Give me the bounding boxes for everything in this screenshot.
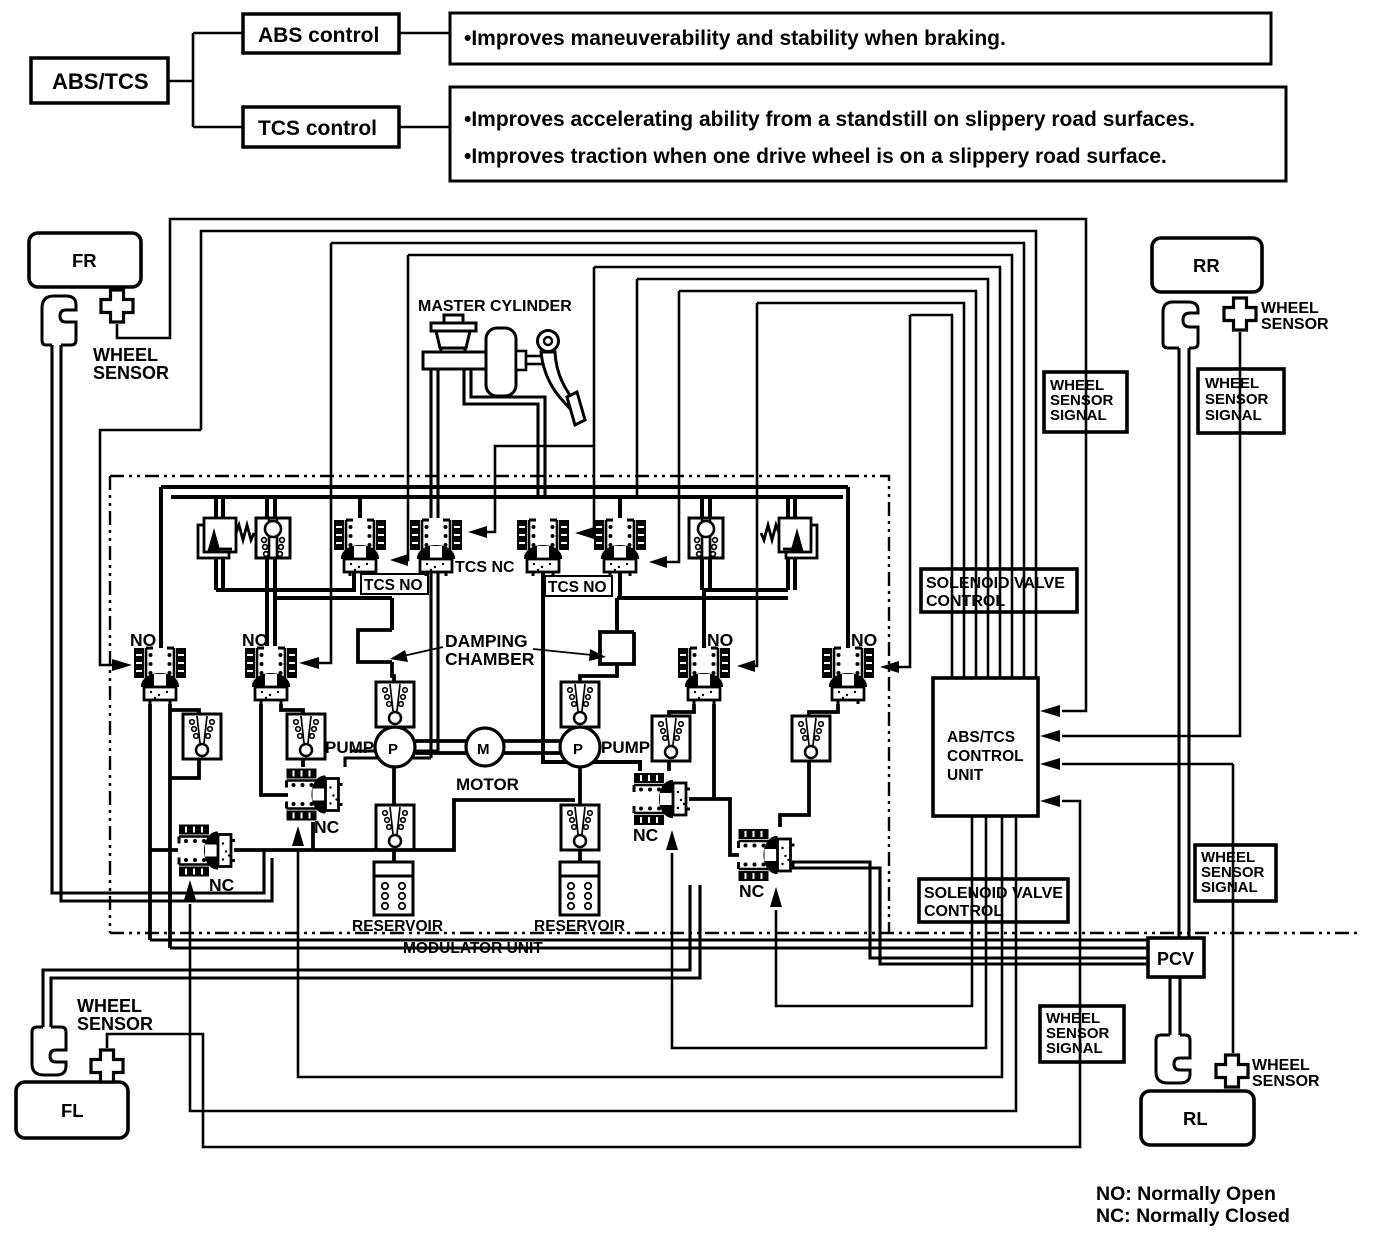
solenoid valve NO right1 bbox=[678, 648, 730, 704]
wire FL wheel sensor signal bbox=[107, 801, 1080, 1147]
svg-text:WHEEL: WHEEL bbox=[77, 996, 142, 1016]
pump P left bbox=[375, 727, 415, 767]
box FR bbox=[29, 233, 141, 287]
arrow into NO2 bbox=[299, 657, 319, 669]
wire L9 solenoid NO right2 bbox=[898, 315, 952, 678]
arrow into control unit 4 bbox=[1040, 795, 1060, 807]
svg-text:WHEEL: WHEEL bbox=[1205, 375, 1259, 392]
reservoir left bbox=[374, 862, 413, 915]
pipe master cylinder output 1 bbox=[345, 369, 438, 767]
label TCS NO right (boxed) bbox=[545, 576, 612, 596]
box TCS control bbox=[243, 107, 399, 147]
motor M bbox=[466, 728, 504, 766]
box WHEEL SENSOR SIGNAL top-left bbox=[1044, 372, 1127, 432]
pipe NC right1 to NC right2 bbox=[689, 799, 739, 855]
box SOLENOID VALVE CONTROL top bbox=[921, 569, 1077, 612]
svg-text:SENSOR: SENSOR bbox=[1205, 391, 1269, 408]
svg-text:DAMPING: DAMPING bbox=[445, 631, 528, 651]
arrow into NC mid-left bbox=[292, 826, 304, 846]
wheel sensor pickup FR (hook) bbox=[42, 296, 76, 345]
box PCV bbox=[1148, 938, 1204, 977]
wire NC right2 solenoid bbox=[776, 816, 972, 1006]
solenoid valve NC lower-left bbox=[179, 825, 235, 877]
pump P right bbox=[560, 727, 600, 767]
wire L5 solenoid TCS NC bbox=[486, 267, 1000, 678]
spring check below NO right1 bbox=[652, 716, 690, 761]
arrow into NC right2 bbox=[770, 887, 782, 907]
box TCS description bbox=[450, 87, 1286, 181]
label WHEEL SENSOR (RL) bbox=[1252, 1057, 1320, 1090]
svg-text:SOLENOID VALVE: SOLENOID VALVE bbox=[926, 575, 1065, 592]
label RESERVOIR right bbox=[534, 918, 625, 935]
svg-text:NC: NC bbox=[633, 825, 659, 845]
box WHEEL SENSOR SIGNAL top-right bbox=[1198, 369, 1284, 433]
pipe mid rail right bbox=[702, 552, 795, 648]
arrow into NC lower-left bbox=[184, 880, 196, 900]
wire L2 solenoid NO1 bbox=[100, 231, 1036, 678]
svg-text:NO: Normally Open: NO: Normally Open bbox=[1096, 1183, 1276, 1205]
svg-text:TCS NC: TCS NC bbox=[455, 559, 515, 576]
svg-text:CONTROL: CONTROL bbox=[947, 748, 1024, 765]
svg-text:SIGNAL: SIGNAL bbox=[1201, 879, 1258, 896]
label MASTER CYLINDER bbox=[418, 298, 572, 315]
damping chamber right bbox=[580, 632, 634, 684]
label NO 2 bbox=[242, 630, 268, 650]
svg-text:CHAMBER: CHAMBER bbox=[445, 649, 535, 669]
relief valve right bbox=[761, 518, 817, 558]
pipe NO1 bottom links bbox=[150, 704, 199, 948]
svg-text:NC: NC bbox=[739, 881, 765, 901]
svg-text:FR: FR bbox=[72, 250, 97, 271]
arrow into TCS NC bbox=[468, 526, 487, 538]
pipe mid rail left (relief to TCS NO) bbox=[216, 552, 354, 590]
svg-text:P: P bbox=[573, 741, 583, 758]
pipe FR brake line bbox=[52, 345, 272, 901]
pipe modulator to PCV 1 bbox=[150, 938, 1148, 941]
svg-text:ABS control: ABS control bbox=[258, 24, 379, 47]
pipe top rail outer bbox=[161, 485, 848, 489]
solenoid valve row1 #6 bbox=[594, 520, 646, 576]
box ABS/TCS CONTROL UNIT bbox=[933, 678, 1038, 816]
wheel sensor cross FR bbox=[101, 290, 133, 322]
solenoid valve NC right2 bbox=[739, 829, 795, 881]
spring check below NO1 bbox=[183, 714, 221, 759]
wire RR wheel sensor signal bbox=[1062, 332, 1240, 736]
svg-text:CONTROL: CONTROL bbox=[924, 903, 1003, 920]
pipe pump chain right bbox=[578, 717, 582, 862]
arrow damping chamber right bbox=[533, 649, 592, 655]
wire L4 solenoid TCS NO left bbox=[404, 255, 1012, 678]
pipe NC right2 to PCV 3 bbox=[792, 862, 1148, 958]
svg-text:ABS/TCS: ABS/TCS bbox=[52, 69, 149, 94]
brake pedal bbox=[538, 331, 586, 426]
svg-text:RESERVOIR: RESERVOIR bbox=[352, 918, 443, 935]
wire L6 solenoid valve row1 right bbox=[637, 279, 988, 678]
wire L8 solenoid NO right1 bbox=[752, 303, 964, 678]
svg-text:CONTROL: CONTROL bbox=[926, 593, 1005, 610]
svg-text:SIGNAL: SIGNAL bbox=[1046, 1040, 1103, 1057]
check valve below pump left bbox=[376, 805, 414, 850]
label NO 1 bbox=[130, 630, 156, 650]
svg-text:•Improves maneuverability and: •Improves maneuverability and stability … bbox=[464, 27, 1006, 50]
svg-text:P: P bbox=[388, 741, 398, 758]
box WHEEL SENSOR SIGNAL bottom bbox=[1040, 1006, 1124, 1062]
arrow into valve5 bbox=[575, 527, 594, 539]
svg-text:•Improves traction when one dr: •Improves traction when one drive wheel … bbox=[464, 145, 1167, 168]
solenoid valve TCS NC bbox=[410, 520, 462, 576]
label WHEEL SENSOR (RR) bbox=[1261, 300, 1329, 333]
relief valve left bbox=[198, 518, 254, 558]
svg-text:PUMP: PUMP bbox=[325, 738, 374, 757]
reservoir right bbox=[560, 862, 599, 915]
wheel sensor cross RR bbox=[1224, 298, 1256, 330]
pipe valve5 to NC right1 bbox=[543, 573, 640, 771]
svg-text:WHEEL: WHEEL bbox=[1261, 300, 1319, 317]
wire NC right1 solenoid bbox=[672, 816, 986, 1048]
box RL bbox=[1141, 1091, 1254, 1145]
pipe master cylinder output 2 bbox=[464, 369, 545, 497]
box SOLENOID VALVE CONTROL bottom bbox=[919, 879, 1068, 922]
pipe NC lower-left right side bbox=[150, 800, 575, 850]
box ABS control bbox=[243, 14, 399, 53]
svg-text:MOTOR: MOTOR bbox=[456, 775, 519, 794]
wheel sensor pickup FL (hook) bbox=[32, 1027, 66, 1075]
label MODULATOR UNIT bbox=[403, 940, 543, 957]
check valve above pump left bbox=[376, 682, 414, 727]
svg-text:SIGNAL: SIGNAL bbox=[1205, 407, 1262, 424]
arrow into NO right2 bbox=[880, 661, 899, 673]
solenoid valve NO right2 bbox=[822, 648, 874, 704]
arrow into control unit 3 bbox=[1040, 758, 1060, 770]
svg-text:RESERVOIR: RESERVOIR bbox=[534, 918, 625, 935]
svg-text:TCS NO: TCS NO bbox=[548, 579, 607, 596]
svg-text:ABS/TCS: ABS/TCS bbox=[947, 729, 1015, 746]
svg-text:SENSOR: SENSOR bbox=[77, 1014, 153, 1034]
check valve circle left bbox=[256, 518, 290, 558]
svg-text:SIGNAL: SIGNAL bbox=[1050, 407, 1107, 424]
pump motor shafts bbox=[415, 741, 560, 753]
svg-text:PCV: PCV bbox=[1157, 949, 1194, 969]
pipe NO right2 bottom links bbox=[780, 704, 838, 827]
pipe NC right2 to PCV 4 bbox=[792, 868, 1148, 964]
svg-text:RR: RR bbox=[1193, 255, 1220, 276]
wire NC mid-left solenoid bbox=[298, 816, 1002, 1077]
wheel sensor pickup RL (hook) bbox=[1156, 1035, 1190, 1083]
booster pushrod bbox=[516, 351, 543, 370]
wire NC lower-left solenoid bbox=[190, 816, 1016, 1111]
arrow into NO right1 bbox=[737, 660, 755, 672]
pipe NO2 bottom links bbox=[261, 704, 303, 795]
pipe left rail drop to NO1 bbox=[159, 487, 163, 648]
pipe top rail inner bbox=[171, 495, 843, 499]
svg-text:NC: NC bbox=[314, 817, 340, 837]
wire flowchart connectors bbox=[168, 33, 450, 127]
arrow into NO1 bbox=[112, 659, 132, 671]
wire RL wheel sensor signal bbox=[1062, 764, 1233, 1053]
box FL bbox=[16, 1082, 128, 1138]
label TCS NO left (boxed) bbox=[361, 574, 428, 594]
solenoid valve NO2 bbox=[245, 648, 297, 704]
solenoid valve row1 #5 bbox=[517, 520, 569, 576]
spring check below NO right2 bbox=[792, 716, 830, 761]
label NO right1 bbox=[707, 630, 733, 650]
label WHEEL SENSOR (FL) bbox=[77, 996, 153, 1034]
pipe rail stubs to row1 valves bbox=[216, 497, 795, 518]
label DAMPING CHAMBER bbox=[445, 631, 535, 669]
svg-text:SENSOR: SENSOR bbox=[1261, 316, 1329, 333]
pipe FL brake line bbox=[43, 885, 700, 1027]
svg-text:SENSOR: SENSOR bbox=[93, 363, 169, 383]
arrow damping chamber left bbox=[403, 647, 443, 656]
svg-text:RL: RL bbox=[1183, 1108, 1208, 1129]
pipe modulator to PCV 2 bbox=[170, 946, 1148, 949]
pipe right rail drop to NO right2 bbox=[846, 487, 850, 648]
arrow into valve6 bbox=[649, 556, 667, 568]
pipe NC mid-left bottom bbox=[311, 822, 315, 850]
arrow into NC right1 bbox=[666, 830, 678, 850]
label NC right2 bbox=[739, 881, 765, 901]
brake booster bbox=[486, 328, 516, 396]
label TCS NC bbox=[455, 559, 515, 576]
wire L3 solenoid NO2 bbox=[318, 243, 1024, 678]
svg-text:NC: Normally Closed: NC: Normally Closed bbox=[1096, 1205, 1290, 1227]
svg-text:WHEEL: WHEEL bbox=[93, 345, 158, 365]
svg-text:SOLENOID VALVE: SOLENOID VALVE bbox=[924, 885, 1063, 902]
check valve above pump right bbox=[561, 682, 599, 727]
label WHEEL SENSOR (FR) bbox=[93, 345, 169, 383]
label PUMP right bbox=[601, 738, 650, 757]
solenoid valve NC right1 bbox=[634, 773, 690, 825]
svg-text:M: M bbox=[477, 741, 490, 758]
label NO right2 bbox=[851, 630, 877, 650]
svg-text:TCS control: TCS control bbox=[258, 117, 377, 140]
box ABS description bbox=[450, 13, 1271, 64]
svg-text:MASTER CYLINDER: MASTER CYLINDER bbox=[418, 298, 572, 315]
svg-text:SENSOR: SENSOR bbox=[1252, 1073, 1320, 1090]
svg-text:TCS NO: TCS NO bbox=[364, 577, 423, 594]
check valve circle right bbox=[689, 518, 723, 558]
damping chamber left bbox=[358, 630, 394, 684]
svg-text:NO: NO bbox=[707, 630, 733, 650]
wheel sensor cross FL bbox=[91, 1050, 123, 1082]
pipe pump chain left bbox=[392, 717, 396, 862]
solenoid valve NC mid-left bbox=[287, 769, 343, 821]
modulator unit dash-dot border bbox=[110, 476, 1360, 933]
svg-text:UNIT: UNIT bbox=[947, 767, 984, 784]
arrow into control unit 1 bbox=[1040, 705, 1060, 717]
svg-text:FL: FL bbox=[61, 1100, 84, 1121]
box ABS/TCS bbox=[31, 58, 168, 103]
pipe RR brake line bbox=[1179, 348, 1189, 938]
label NC lower-left bbox=[209, 875, 235, 895]
check valve below pump right bbox=[561, 805, 599, 850]
box WHEEL SENSOR SIGNAL mid-right bbox=[1195, 845, 1276, 901]
svg-text:NO: NO bbox=[242, 630, 268, 650]
label PUMP left bbox=[325, 738, 374, 757]
spring check below NO2 bbox=[287, 714, 325, 759]
solenoid valve TCS NO left bbox=[334, 520, 386, 576]
arrow into control unit 2 bbox=[1040, 730, 1060, 742]
pipe NO right1 bottom links bbox=[669, 704, 714, 799]
svg-text:WHEEL: WHEEL bbox=[1252, 1057, 1310, 1074]
pipe valve6 to damping chamber right bbox=[617, 573, 788, 632]
label NC mid-left bbox=[314, 817, 340, 837]
solenoid valve NO1 bbox=[134, 648, 186, 704]
wheel sensor cross RL bbox=[1216, 1055, 1248, 1087]
master cylinder reservoir & body bbox=[423, 315, 488, 369]
wire L7 bbox=[665, 291, 976, 678]
arrow into TCS NO left bbox=[390, 554, 408, 566]
legend NO/NC bbox=[1096, 1183, 1290, 1227]
wheel sensor pickup RR (hook) bbox=[1163, 302, 1198, 348]
box RR bbox=[1152, 238, 1262, 292]
label NC right1 bbox=[633, 825, 659, 845]
label MOTOR bbox=[456, 775, 519, 794]
wire L1 FR wheel sensor signal bbox=[117, 219, 1086, 711]
svg-text:PUMP: PUMP bbox=[601, 738, 650, 757]
svg-text:•Improves accelerating ability: •Improves accelerating ability from a st… bbox=[464, 108, 1195, 131]
label RESERVOIR left bbox=[352, 918, 443, 935]
pipe RL brake line bbox=[1170, 977, 1180, 1035]
svg-text:NO: NO bbox=[851, 630, 877, 650]
pipe mid rail left 2 (to damping chamber) bbox=[267, 558, 392, 646]
